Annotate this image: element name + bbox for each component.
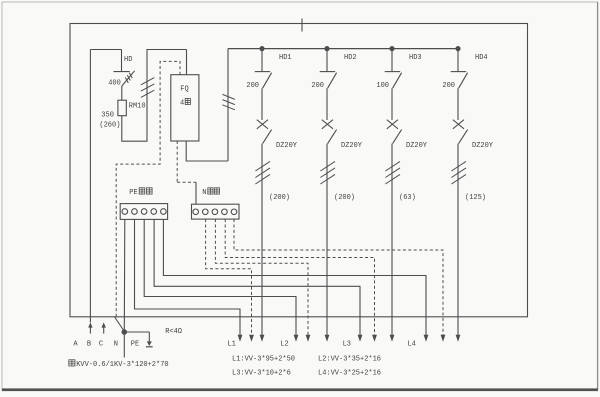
wire: breaker HD3 load drop bbox=[391, 144, 393, 336]
arrow: N feeder L3 bbox=[372, 335, 377, 342]
svg-text:PE: PE bbox=[131, 340, 139, 348]
svg-text:L4:VV-3*25+2*16: L4:VV-3*25+2*16 bbox=[318, 369, 381, 377]
PE busbar bbox=[120, 204, 167, 220]
wire: incoming phase riser bbox=[89, 50, 91, 323]
svg-text:4: 4 bbox=[180, 99, 184, 107]
node HD4 bus junction bbox=[455, 46, 460, 51]
arrow: PE feeder L1 bbox=[238, 335, 243, 342]
breaker DZ20Y (200) bbox=[322, 88, 337, 143]
arrow: incoming phase C bbox=[102, 322, 106, 333]
svg-text:200: 200 bbox=[246, 82, 259, 90]
dashed wire: N feeder to L2 bbox=[215, 219, 308, 335]
label N busbar bbox=[202, 188, 219, 197]
svg-text:RM10: RM10 bbox=[129, 102, 146, 110]
svg-text:200: 200 bbox=[311, 82, 324, 90]
dashed wire: N feeder to L4 bbox=[234, 219, 443, 335]
arrow: load feeder HD3 bbox=[390, 335, 395, 342]
wire: PE feeder to L1 bbox=[135, 219, 241, 335]
label incoming cable spec bbox=[69, 360, 169, 369]
svg-text:L2: L2 bbox=[280, 341, 288, 349]
svg-text:B: B bbox=[87, 340, 91, 348]
svg-text:FQ: FQ bbox=[180, 86, 188, 94]
svg-text:400: 400 bbox=[108, 79, 121, 87]
svg-text:L2:VV-3*35+2*16: L2:VV-3*35+2*16 bbox=[318, 355, 381, 363]
node: N-PE bond point bbox=[122, 329, 128, 335]
wire: PE feeder to L3 bbox=[154, 219, 360, 335]
N busbar bbox=[192, 204, 240, 219]
wire: feed into FQ box top bbox=[186, 50, 188, 75]
svg-text:HD1: HD1 bbox=[279, 54, 292, 62]
svg-text:L1:VV-3*95+2*50: L1:VV-3*95+2*50 bbox=[232, 355, 295, 363]
label 4# bbox=[180, 98, 190, 107]
svg-text:KVV-0.6/1KV-3*120+2*70: KVV-0.6/1KV-3*120+2*70 bbox=[76, 361, 168, 369]
svg-text:HD2: HD2 bbox=[344, 54, 357, 62]
svg-text:L4: L4 bbox=[407, 341, 415, 349]
wire: breaker HD1 load drop bbox=[261, 144, 263, 336]
svg-text:PE: PE bbox=[129, 189, 137, 197]
switch HD2 200A bbox=[320, 49, 337, 89]
arrow: PE feeder L3 bbox=[358, 335, 363, 342]
svg-text:350: 350 bbox=[101, 112, 114, 120]
arrow: incoming phase A/B bbox=[88, 322, 92, 333]
arrow: PE feeder L4 bbox=[424, 335, 429, 342]
wire: fuse output to riser bbox=[122, 50, 187, 142]
meter box FQ 4# bbox=[171, 75, 199, 141]
svg-text:(63): (63) bbox=[399, 194, 416, 202]
three-phase slash marks on HD2 drop bbox=[320, 161, 335, 184]
wire: bus riser bbox=[227, 49, 229, 161]
arrow: load feeder HD4 bbox=[456, 335, 461, 342]
svg-text:N: N bbox=[114, 340, 118, 348]
svg-text:DZ20Y: DZ20Y bbox=[406, 142, 428, 150]
switch HD3 100A bbox=[385, 49, 402, 89]
panel enclosure border bbox=[70, 24, 528, 317]
svg-text:(200): (200) bbox=[269, 194, 290, 202]
wire: top link to HD switch bbox=[90, 49, 121, 51]
arrow: load feeder HD1 bbox=[260, 335, 265, 342]
wire: PE1 to N-PE node bbox=[123, 219, 126, 331]
dashed wire: FQ enclosure earth bond bbox=[116, 61, 180, 316]
svg-text:DZ20Y: DZ20Y bbox=[472, 142, 494, 150]
dashed wire: FQ neutral to N busbar bbox=[177, 141, 196, 182]
svg-text:200: 200 bbox=[442, 82, 455, 90]
breaker DZ20Y (63) bbox=[387, 88, 402, 143]
node HD2 bus junction bbox=[324, 46, 329, 51]
three-phase slash marks on fuse riser bbox=[141, 78, 154, 98]
three-phase slash marks on HD1 drop bbox=[255, 161, 270, 184]
svg-text:R<4Ω: R<4Ω bbox=[165, 328, 182, 336]
arrow: N feeder L4 bbox=[441, 335, 446, 342]
svg-text:HD: HD bbox=[124, 56, 132, 64]
arrow: N feeder L1 bbox=[249, 335, 254, 342]
svg-text:(125): (125) bbox=[465, 194, 486, 202]
arrow: N feeder L2 bbox=[306, 335, 311, 342]
top border tick bbox=[301, 19, 303, 32]
svg-text:DZ20Y: DZ20Y bbox=[341, 142, 363, 150]
wire: FQ output to bus riser bbox=[186, 141, 228, 161]
arrow: PE feeder L2 bbox=[294, 335, 299, 342]
svg-text:DZ20Y: DZ20Y bbox=[276, 142, 298, 150]
switch HD4 200A bbox=[451, 49, 468, 89]
wire: N busbar terminal 1 feed bbox=[195, 182, 197, 204]
dashed wire: N feeder to L3 bbox=[225, 219, 374, 335]
breaker DZ20Y (200) bbox=[257, 88, 272, 143]
svg-text:HD3: HD3 bbox=[409, 54, 422, 62]
label PE busbar bbox=[129, 188, 152, 197]
svg-text:(200): (200) bbox=[334, 194, 355, 202]
svg-text:N: N bbox=[202, 189, 206, 197]
wire: PE feeder to L4 bbox=[163, 219, 426, 335]
wire: breaker HD4 load drop bbox=[457, 144, 459, 336]
wire: earth bond drop to N-PE node bbox=[115, 317, 125, 332]
wire: breaker HD2 load drop bbox=[326, 144, 328, 336]
svg-text:100: 100 bbox=[376, 82, 389, 90]
earth electrode connection bbox=[124, 332, 152, 347]
svg-text:HD4: HD4 bbox=[475, 54, 488, 62]
svg-text:L1: L1 bbox=[227, 341, 235, 349]
three-phase slash marks on HD3 drop bbox=[385, 161, 400, 184]
switch HD 400A knife switch bbox=[114, 50, 135, 87]
arrow: load feeder HD2 bbox=[325, 335, 330, 342]
svg-text:(260): (260) bbox=[99, 122, 120, 130]
wire: PE feeder to L2 bbox=[144, 219, 296, 335]
three-phase slash marks on bus riser bbox=[222, 94, 235, 109]
node HD3 bus junction bbox=[389, 46, 394, 51]
breaker DZ20Y (125) bbox=[453, 88, 468, 143]
label phase letters A B C N PE bbox=[73, 340, 139, 348]
svg-text:C: C bbox=[99, 340, 103, 348]
dashed wire: N feeder to L1 bbox=[206, 219, 252, 335]
switch HD1 200A bbox=[255, 49, 272, 89]
wire: main distribution bus bbox=[228, 48, 458, 50]
svg-text:L3: L3 bbox=[343, 341, 351, 349]
node HD1 bus junction bbox=[259, 46, 264, 51]
fuse RM10 bbox=[118, 86, 126, 116]
wire: neutral tail bbox=[123, 332, 125, 358]
svg-text:L3:VV-3*10+2*6: L3:VV-3*10+2*6 bbox=[232, 369, 291, 377]
three-phase slash marks on HD4 drop bbox=[451, 161, 466, 184]
